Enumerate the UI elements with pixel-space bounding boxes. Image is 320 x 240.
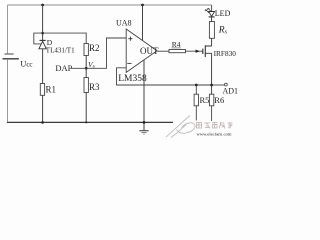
svg-text:IRF830: IRF830: [214, 49, 237, 58]
op-amp U1 LM358 triangle: [126, 29, 157, 72]
wire LED to Rs: [211, 17, 213, 22]
wire R5 top stub: [195, 85, 197, 94]
node REF junction: [41, 32, 44, 35]
resistor R3: [84, 78, 88, 93]
wire op-amp output to R4: [157, 50, 170, 52]
transistor Q1 IRF830: [203, 38, 212, 94]
wire TL431 REF loop: [34, 33, 43, 44]
wire R2 bottom to Vs node: [85, 56, 87, 69]
pin + (non-inverting): [128, 37, 132, 41]
wire diode anode to R1: [42, 49, 44, 84]
node junction top rail / op-amp V+: [141, 4, 144, 7]
watermark chinese characters: [197, 122, 233, 129]
resistor R4: [169, 50, 186, 53]
wire inverting input feedback: [117, 68, 212, 85]
node R3 / bottom rail: [85, 121, 87, 123]
LED: [205, 8, 215, 17]
node source / sense junction: [210, 84, 213, 87]
gate arrow: [196, 50, 200, 53]
svg-text:R1: R1: [46, 85, 57, 95]
wire top rail to LED: [211, 5, 213, 11]
wire op-amp V+ pin: [142, 5, 144, 41]
wire op-amp V- pin to ground: [143, 60, 145, 130]
svg-text:OUT: OUT: [140, 46, 159, 56]
wire TL431 branch from top rail: [42, 5, 44, 40]
resistor R6: [209, 94, 213, 106]
wire bottom ground rail: [7, 121, 173, 123]
node op-amp ground junction: [143, 121, 146, 124]
resistor R2: [84, 44, 88, 56]
watermark logo swirl: [166, 116, 195, 138]
pin - (inverting): [127, 62, 131, 64]
svg-text:Ucc: Ucc: [20, 58, 32, 68]
svg-text:R3: R3: [89, 82, 100, 92]
diode D (TL431/T1 shunt reference): [39, 40, 46, 48]
resistor Rs: [209, 22, 214, 39]
wire REF node to R2 top: [43, 33, 87, 43]
wire top supply rail: [8, 4, 212, 6]
wire left rail upper: [7, 5, 9, 53]
node junction top rail / TL431 branch: [41, 4, 44, 7]
svg-text:R5: R5: [200, 95, 210, 105]
wire AD1 terminal: [212, 84, 225, 86]
wire Vs to R3: [85, 68, 87, 77]
svg-text:D: D: [47, 38, 53, 47]
svg-text:DAP: DAP: [55, 63, 72, 73]
svg-text:R2: R2: [89, 43, 100, 53]
resistor R5: [194, 94, 198, 106]
battery Ucc: [3, 54, 19, 59]
svg-text:UA8: UA8: [116, 18, 132, 27]
wire R3 to bottom rail: [85, 93, 87, 123]
node AD1 terminal circle: [225, 83, 228, 86]
svg-text:AD1: AD1: [223, 87, 239, 96]
wire DAP net to op-amp non-inverting input: [71, 38, 126, 68]
svg-text:LED: LED: [215, 9, 231, 18]
wire R4 to gate: [186, 50, 203, 52]
svg-text:www.elecfans.com: www.elecfans.com: [197, 132, 232, 137]
svg-text:R6: R6: [214, 95, 224, 105]
svg-text:LM358: LM358: [118, 74, 147, 84]
wire R1 to bottom rail: [42, 95, 44, 122]
wire left rail lower: [7, 60, 9, 123]
resistor R1: [40, 84, 44, 96]
ground: [139, 131, 148, 134]
node Vs junction: [85, 67, 88, 70]
wire R6 bottom stub: [211, 106, 213, 121]
node R5 top junction: [195, 84, 198, 87]
wire R5 bottom stub: [195, 106, 197, 121]
node R1 / bottom rail: [41, 121, 44, 124]
svg-text:TL431/T1: TL431/T1: [46, 47, 75, 55]
